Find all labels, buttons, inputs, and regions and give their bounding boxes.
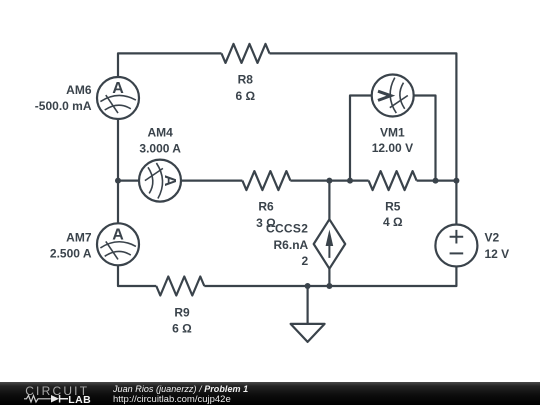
- svg-text:A: A: [161, 175, 178, 187]
- svg-text:R9: R9: [174, 306, 190, 320]
- label R8 value: [235, 73, 255, 104]
- label R5 value: [383, 200, 403, 230]
- svg-text:R6.nA: R6.nA: [274, 238, 309, 252]
- svg-text:6 Ω: 6 Ω: [172, 321, 192, 335]
- label VM1 value: [372, 125, 413, 155]
- svg-text:2: 2: [302, 254, 309, 268]
- svg-text:A: A: [112, 226, 124, 243]
- CircuitLab logo: [22, 382, 122, 405]
- svg-text:LAB: LAB: [68, 394, 91, 405]
- svg-text:3.000 A: 3.000 A: [139, 142, 181, 156]
- svg-text:6 Ω: 6 Ω: [235, 89, 255, 103]
- ammeter AM4: [139, 160, 181, 202]
- svg-text:-500.0 mA: -500.0 mA: [35, 99, 92, 113]
- label AM6 value: [35, 83, 92, 113]
- wire: AM7 bottom to bottom-left corner to R9: [118, 265, 156, 286]
- svg-text:A: A: [112, 80, 124, 97]
- resistor R9: [156, 277, 204, 296]
- node: CCCS2 top junction dot: [326, 178, 332, 184]
- voltmeter VM1: [372, 75, 414, 117]
- label AM7 value: [50, 231, 92, 261]
- node: CCCS2 bottom junction dot: [326, 283, 332, 289]
- current source CCCS2: [314, 219, 346, 268]
- node A junction dot: [115, 178, 121, 184]
- voltage source V2: [435, 225, 477, 267]
- wire: AM4 right to R6: [181, 180, 242, 182]
- resistor R5: [369, 171, 417, 190]
- svg-text:VM1: VM1: [380, 125, 405, 139]
- wire: AM6 bottom to node A: [117, 119, 119, 181]
- wire: CCCS2 top stem: [328, 181, 330, 220]
- wire: VM1 left leg: [350, 96, 372, 181]
- svg-text:2.500 A: 2.500 A: [50, 247, 92, 261]
- svg-text:AM6: AM6: [66, 83, 92, 97]
- label AM4 value: [139, 126, 181, 156]
- label R9 value: [172, 306, 192, 336]
- svg-text:AM7: AM7: [66, 231, 92, 245]
- wire: ground stem: [307, 286, 309, 324]
- svg-text:4 Ω: 4 Ω: [383, 215, 403, 229]
- node: ground junction dot: [305, 283, 311, 289]
- ammeter AM6: [97, 77, 139, 119]
- ammeter AM7: [97, 223, 139, 265]
- wire: R5 right to right rail: [417, 180, 457, 182]
- wire: R9 right along bottom to V2 bottom: [204, 267, 456, 286]
- wire: node A down to AM7 top: [117, 181, 119, 224]
- label R6 value: [256, 200, 276, 230]
- resistor R6: [242, 171, 290, 190]
- svg-text:12 V: 12 V: [485, 247, 510, 261]
- svg-text:12.00 V: 12.00 V: [372, 141, 413, 155]
- svg-text:R6: R6: [258, 200, 274, 214]
- label V2 value: [485, 231, 510, 261]
- ground: [291, 324, 325, 342]
- wire: R8 right to top-right corner down to V2 top: [270, 53, 457, 224]
- svg-text:AM4: AM4: [148, 126, 174, 140]
- node: right rail junction dot: [453, 178, 459, 184]
- wire: R6 right to R5 left: [290, 180, 368, 182]
- svg-text:R8: R8: [238, 73, 254, 87]
- wire: VM1 right leg: [414, 96, 436, 181]
- wire: top-left corner from AM6 up and right to R8: [118, 53, 222, 77]
- svg-text:CCCS2: CCCS2: [266, 222, 308, 236]
- wire: node A to AM4 left: [118, 180, 139, 182]
- node: VM1 right junction dot: [433, 178, 439, 184]
- resistor R8: [222, 44, 270, 63]
- svg-text:R5: R5: [385, 200, 401, 214]
- svg-text:V2: V2: [485, 231, 500, 245]
- node: VM1 left junction dot: [347, 178, 353, 184]
- wire: CCCS2 bottom stem: [328, 269, 330, 286]
- label CCCS2 value: [266, 222, 309, 269]
